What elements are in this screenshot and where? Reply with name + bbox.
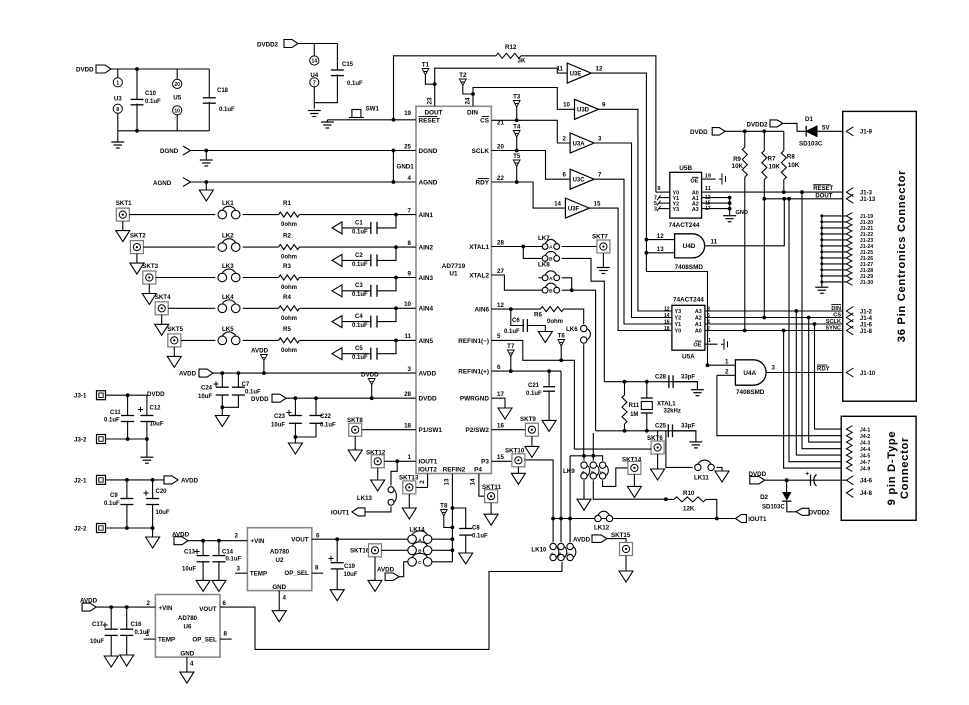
svg-text:2: 2 [147, 600, 151, 607]
svg-text:13: 13 [444, 478, 451, 485]
svg-text:AIN2: AIN2 [419, 245, 434, 252]
svg-text:U5A: U5A [682, 354, 695, 361]
svg-text:J4-7: J4-7 [860, 460, 870, 466]
svg-text:LK11: LK11 [694, 475, 709, 482]
svg-text:10uF: 10uF [90, 639, 104, 645]
svg-text:7408SMD: 7408SMD [736, 389, 765, 396]
svg-text:C2: C2 [355, 253, 363, 259]
svg-text:T6: T6 [558, 333, 566, 340]
svg-text:18: 18 [404, 423, 411, 430]
svg-text:U6: U6 [184, 624, 192, 631]
svg-text:A: A [580, 471, 585, 474]
svg-text:RDY: RDY [476, 179, 490, 186]
svg-text:0.1uF: 0.1uF [226, 556, 242, 562]
svg-text:16: 16 [664, 320, 670, 326]
svg-text:11: 11 [705, 186, 711, 192]
svg-text:0.1uF: 0.1uF [352, 292, 368, 298]
svg-text:DOUT: DOUT [815, 193, 832, 199]
svg-text:VOUT: VOUT [199, 606, 216, 613]
svg-text:6: 6 [223, 600, 227, 607]
svg-text:0ohm: 0ohm [281, 285, 297, 291]
svg-text:12: 12 [664, 307, 670, 313]
svg-text:10uF: 10uF [156, 510, 170, 516]
svg-text:AGND: AGND [153, 180, 172, 187]
svg-text:GND1: GND1 [397, 164, 415, 171]
svg-text:XTAL2: XTAL2 [469, 272, 489, 279]
svg-text:A: A [549, 552, 554, 555]
svg-text:SKT9: SKT9 [520, 416, 536, 423]
svg-text:R12: R12 [505, 44, 517, 51]
svg-text:C17: C17 [92, 622, 104, 628]
svg-text:VOUT: VOUT [291, 537, 308, 544]
svg-text:AD780: AD780 [270, 549, 290, 556]
svg-text:J4-6: J4-6 [860, 479, 873, 485]
svg-text:74ACT244: 74ACT244 [669, 222, 700, 229]
svg-text:U2: U2 [276, 557, 284, 564]
svg-text:23: 23 [427, 97, 434, 104]
svg-text:TEMP: TEMP [250, 571, 267, 578]
svg-text:DVDD2: DVDD2 [257, 42, 279, 49]
svg-text:AVDD: AVDD [179, 371, 197, 378]
svg-text:OP_SEL: OP_SEL [284, 570, 309, 577]
svg-text:0.1uF: 0.1uF [320, 423, 336, 429]
svg-text:A3: A3 [695, 309, 702, 315]
svg-text:Y2: Y2 [675, 316, 682, 322]
svg-text:10uF: 10uF [150, 422, 164, 428]
svg-text:10K: 10K [769, 164, 781, 171]
svg-text:AVDD: AVDD [419, 371, 437, 378]
svg-text:J3-2: J3-2 [74, 436, 87, 443]
svg-text:R5: R5 [283, 326, 291, 333]
svg-text:74ACT244: 74ACT244 [673, 297, 704, 304]
svg-text:J2-2: J2-2 [74, 525, 87, 532]
svg-text:2: 2 [725, 369, 729, 376]
svg-text:27: 27 [497, 268, 504, 275]
svg-text:LK1: LK1 [222, 200, 234, 207]
svg-text:20: 20 [497, 143, 504, 150]
svg-text:7408SMD: 7408SMD [675, 264, 704, 271]
svg-text:AIN3: AIN3 [419, 275, 434, 282]
svg-text:PWRGND: PWRGND [460, 396, 489, 403]
svg-text:J4-3: J4-3 [860, 440, 870, 446]
svg-text:0.1uF: 0.1uF [352, 262, 368, 268]
svg-text:J4-4: J4-4 [860, 447, 870, 453]
svg-text:0.1uF: 0.1uF [104, 501, 120, 507]
svg-text:R1: R1 [283, 200, 291, 207]
svg-text:8: 8 [408, 240, 412, 247]
svg-text:SKT5: SKT5 [167, 326, 183, 333]
svg-text:C10: C10 [145, 91, 157, 97]
svg-text:AGND: AGND [419, 179, 438, 186]
svg-text:J3-1: J3-1 [74, 393, 87, 400]
svg-text:28: 28 [497, 239, 504, 246]
svg-text:C: C [418, 560, 422, 566]
svg-text:T5: T5 [513, 153, 521, 160]
svg-text:0.1uF: 0.1uF [472, 534, 488, 540]
svg-text:D1: D1 [805, 116, 813, 123]
svg-text:DGND: DGND [160, 148, 179, 155]
svg-text:R9: R9 [733, 156, 741, 163]
svg-text:12: 12 [657, 233, 664, 240]
svg-text:DGND: DGND [419, 148, 438, 155]
svg-text:6: 6 [497, 364, 501, 371]
svg-text:IOUT1: IOUT1 [419, 459, 438, 466]
svg-text:LK13: LK13 [357, 495, 373, 502]
svg-text:12K: 12K [683, 506, 695, 513]
svg-text:SKT4: SKT4 [155, 294, 171, 301]
svg-text:XTAL1: XTAL1 [469, 244, 489, 251]
svg-text:U3: U3 [114, 95, 122, 102]
svg-text:19: 19 [705, 173, 711, 179]
svg-text:10uF: 10uF [198, 394, 212, 400]
svg-text:RESET: RESET [813, 186, 833, 192]
svg-text:J4-9: J4-9 [860, 466, 870, 472]
svg-text:C1: C1 [355, 220, 363, 226]
svg-text:C28: C28 [655, 374, 667, 380]
svg-text:13: 13 [657, 246, 664, 253]
svg-text:C13: C13 [184, 550, 196, 556]
svg-text:D2: D2 [760, 494, 768, 501]
svg-text:11: 11 [556, 66, 563, 73]
svg-text:C8: C8 [472, 526, 480, 532]
svg-text:7: 7 [313, 81, 316, 87]
svg-text:4: 4 [707, 320, 710, 326]
svg-text:6: 6 [707, 313, 710, 319]
svg-text:J4-5: J4-5 [860, 453, 870, 459]
svg-text:OP_SEL: OP_SEL [192, 637, 217, 644]
svg-text:J4-1: J4-1 [860, 427, 870, 433]
svg-text:SD103C: SD103C [799, 141, 823, 148]
svg-text:18: 18 [664, 326, 670, 332]
svg-text:U4A: U4A [743, 370, 756, 377]
svg-text:R11: R11 [629, 403, 640, 409]
svg-text:C4: C4 [355, 314, 363, 320]
svg-text:IOUT1: IOUT1 [331, 509, 350, 516]
svg-text:0.1uF: 0.1uF [504, 329, 520, 335]
svg-text:0.1uF: 0.1uF [347, 81, 363, 87]
svg-text:9: 9 [657, 186, 660, 192]
svg-text:8: 8 [315, 565, 319, 572]
svg-text:U3D: U3D [577, 108, 590, 114]
svg-text:REFIN1(−): REFIN1(−) [458, 338, 489, 345]
svg-text:C12: C12 [150, 406, 162, 412]
svg-text:C15: C15 [342, 62, 354, 68]
svg-text:DVDD: DVDD [147, 391, 165, 398]
svg-text:AD7719: AD7719 [442, 263, 466, 270]
svg-text:16: 16 [497, 423, 504, 430]
svg-text:6: 6 [563, 172, 567, 179]
svg-text:DVDD: DVDD [76, 67, 94, 74]
svg-text:1: 1 [116, 81, 119, 87]
svg-text:1: 1 [725, 359, 729, 366]
svg-text:10uF: 10uF [344, 572, 358, 578]
svg-text:6: 6 [316, 532, 320, 539]
svg-text:LK3: LK3 [222, 263, 234, 270]
svg-text:SKT3: SKT3 [142, 263, 158, 270]
svg-text:LK9: LK9 [563, 468, 575, 475]
svg-text:C20: C20 [156, 489, 168, 495]
svg-text:17: 17 [497, 391, 504, 398]
svg-text:C18: C18 [217, 88, 229, 94]
svg-text:8: 8 [224, 631, 228, 638]
svg-text:A2: A2 [695, 316, 702, 322]
svg-text:5: 5 [497, 333, 501, 340]
svg-text:J1-10: J1-10 [860, 371, 876, 377]
svg-text:LK12: LK12 [594, 525, 610, 532]
svg-text:15: 15 [497, 454, 504, 461]
svg-text:24: 24 [465, 97, 472, 104]
svg-text:U3F: U3F [568, 206, 580, 212]
svg-text:1: 1 [708, 338, 711, 344]
svg-text:28: 28 [404, 391, 411, 398]
svg-text:SYNC: SYNC [825, 325, 841, 331]
svg-text:AD780: AD780 [178, 615, 198, 622]
svg-text:R2: R2 [283, 233, 291, 240]
svg-text:LK10: LK10 [531, 547, 547, 554]
svg-text:J1-9: J1-9 [860, 130, 873, 136]
svg-text:J1-6: J1-6 [860, 322, 873, 328]
svg-text:+VIN: +VIN [159, 605, 173, 612]
svg-text:Y3: Y3 [673, 207, 680, 213]
svg-text:U1: U1 [449, 271, 458, 278]
svg-text:R8: R8 [787, 154, 795, 161]
svg-text:T1: T1 [422, 62, 430, 69]
svg-text:OE: OE [693, 342, 701, 348]
svg-text:3: 3 [598, 135, 602, 142]
svg-text:C: C [599, 471, 604, 474]
svg-text:OE: OE [690, 179, 698, 185]
svg-text:J1-30: J1-30 [860, 280, 873, 286]
svg-text:C25: C25 [655, 423, 667, 429]
svg-text:C23: C23 [274, 414, 286, 420]
svg-text:SKT16: SKT16 [350, 548, 370, 555]
svg-text:P2/SW2: P2/SW2 [466, 427, 490, 434]
svg-text:0.1uF: 0.1uF [352, 355, 368, 361]
svg-text:C14: C14 [222, 550, 234, 556]
svg-text:RDY: RDY [817, 367, 830, 373]
svg-text:4: 4 [408, 175, 412, 182]
svg-text:J4-2: J4-2 [860, 434, 870, 440]
svg-text:1M: 1M [630, 412, 638, 418]
svg-text:A: A [549, 245, 553, 251]
svg-text:DVDD: DVDD [419, 396, 437, 403]
svg-text:U3A: U3A [573, 141, 586, 147]
svg-text:J2-1: J2-1 [74, 477, 87, 484]
svg-text:A: A [549, 276, 553, 282]
svg-text:LK4: LK4 [222, 294, 234, 301]
svg-text:5V: 5V [822, 125, 830, 132]
svg-text:AVDD: AVDD [573, 537, 591, 544]
svg-text:T4: T4 [513, 124, 521, 131]
svg-text:TEMP: TEMP [158, 637, 175, 644]
svg-text:A1: A1 [695, 322, 702, 328]
svg-text:AIN4: AIN4 [419, 306, 434, 313]
svg-text:9 pin D-Type: 9 pin D-Type [886, 431, 898, 506]
svg-text:R4: R4 [283, 294, 291, 301]
svg-text:GND: GND [180, 651, 194, 658]
svg-text:10: 10 [174, 109, 180, 115]
svg-text:Y0: Y0 [675, 329, 682, 335]
svg-text:SKT2: SKT2 [130, 233, 146, 240]
svg-text:DVDD: DVDD [690, 129, 708, 136]
svg-text:LK7: LK7 [538, 235, 550, 242]
svg-text:14: 14 [312, 59, 318, 65]
svg-text:R3: R3 [283, 263, 291, 270]
svg-text:DIN: DIN [467, 110, 478, 117]
svg-text:R6: R6 [534, 312, 542, 319]
svg-text:XTAL1: XTAL1 [657, 402, 676, 408]
svg-text:7: 7 [598, 172, 602, 179]
svg-text:B: B [549, 257, 553, 263]
svg-text:SKT1: SKT1 [116, 200, 132, 207]
svg-text:T2: T2 [459, 72, 467, 79]
svg-text:10K: 10K [732, 163, 744, 170]
svg-text:33pF: 33pF [681, 423, 695, 429]
svg-text:B: B [589, 471, 594, 474]
svg-text:0.1uF: 0.1uF [352, 229, 368, 235]
svg-text:11: 11 [711, 239, 718, 246]
svg-text:3: 3 [237, 566, 241, 573]
svg-text:AVDD: AVDD [251, 348, 269, 355]
svg-text:C: C [566, 552, 571, 555]
svg-text:0ohm: 0ohm [281, 348, 297, 354]
svg-text:J1-13: J1-13 [860, 197, 876, 203]
svg-text:4: 4 [283, 595, 287, 602]
svg-text:Y1: Y1 [675, 322, 682, 328]
svg-text:P4: P4 [474, 466, 482, 473]
svg-text:12: 12 [596, 66, 603, 73]
svg-text:3: 3 [772, 365, 776, 372]
svg-text:U3E: U3E [570, 71, 582, 77]
svg-text:36 Pin Centronics Connector: 36 Pin Centronics Connector [896, 170, 908, 342]
svg-text:LK5: LK5 [222, 326, 234, 333]
svg-text:9: 9 [602, 102, 606, 109]
svg-text:2: 2 [235, 532, 239, 539]
svg-text:33pF: 33pF [681, 374, 695, 380]
svg-text:C22: C22 [320, 414, 332, 420]
svg-text:0ohm: 0ohm [281, 316, 297, 322]
svg-text:22: 22 [497, 175, 504, 182]
svg-text:DVDD2: DVDD2 [747, 122, 769, 129]
svg-text:0ohm: 0ohm [281, 255, 297, 261]
svg-text:2: 2 [563, 135, 567, 142]
svg-text:RESET: RESET [419, 117, 440, 124]
svg-text:C24: C24 [201, 386, 213, 392]
svg-text:19: 19 [404, 110, 411, 117]
svg-text:AVDD: AVDD [377, 566, 395, 573]
svg-text:3: 3 [408, 366, 412, 373]
svg-text:11: 11 [404, 333, 411, 340]
svg-text:C5: C5 [355, 346, 363, 352]
svg-text:U5B: U5B [679, 165, 692, 172]
svg-text:IOUT1: IOUT1 [748, 516, 767, 523]
svg-text:J1-2: J1-2 [860, 309, 873, 315]
svg-text:B: B [557, 552, 562, 555]
svg-text:T3: T3 [513, 94, 521, 101]
svg-text:AIN6: AIN6 [474, 307, 489, 314]
svg-text:8: 8 [707, 307, 710, 313]
svg-text:AIN5: AIN5 [419, 338, 434, 345]
svg-text:1: 1 [408, 454, 412, 461]
svg-text:Y3: Y3 [675, 309, 682, 315]
svg-text:10: 10 [563, 102, 570, 109]
svg-text:12: 12 [497, 302, 504, 309]
svg-text:17: 17 [705, 206, 711, 212]
svg-text:14: 14 [554, 201, 561, 208]
svg-text:25: 25 [404, 143, 411, 150]
svg-text:0.1uF: 0.1uF [145, 99, 161, 105]
svg-text:10uF: 10uF [182, 567, 196, 573]
svg-text:LK6: LK6 [566, 326, 578, 333]
svg-text:DOUT: DOUT [424, 110, 442, 117]
svg-text:C11: C11 [110, 410, 121, 416]
svg-text:C19: C19 [344, 564, 356, 570]
svg-text:U4D: U4D [683, 243, 696, 250]
svg-text:32kHz: 32kHz [664, 409, 681, 415]
svg-text:J4-8: J4-8 [860, 491, 873, 497]
svg-text:U5: U5 [173, 95, 181, 102]
svg-text:20: 20 [174, 82, 180, 88]
svg-text:R10: R10 [683, 490, 695, 497]
svg-text:J1-4: J1-4 [860, 316, 873, 322]
svg-text:C21: C21 [528, 383, 540, 389]
svg-text:CS: CS [480, 117, 490, 124]
svg-text:DVDD2: DVDD2 [809, 510, 831, 517]
svg-text:J1-3: J1-3 [860, 190, 873, 196]
svg-text:Connector: Connector [899, 437, 911, 499]
svg-text:DVDD: DVDD [361, 372, 379, 379]
svg-text:0.1uF: 0.1uF [245, 390, 261, 396]
svg-text:SCLK: SCLK [472, 148, 490, 155]
svg-text:0.1uF: 0.1uF [526, 391, 542, 397]
svg-text:0ohm: 0ohm [281, 222, 297, 228]
svg-text:3: 3 [146, 631, 150, 638]
svg-text:15: 15 [594, 201, 601, 208]
svg-text:U3C: U3C [573, 178, 586, 184]
svg-text:REFIN2: REFIN2 [443, 466, 466, 473]
svg-text:GND: GND [272, 584, 286, 591]
svg-text:0.1uF: 0.1uF [352, 323, 368, 329]
svg-text:LK2: LK2 [222, 233, 234, 240]
svg-text:7: 7 [408, 207, 412, 214]
svg-text:SD103C: SD103C [762, 505, 785, 511]
svg-text:J1-8: J1-8 [860, 329, 873, 335]
svg-text:3: 3 [654, 207, 657, 213]
svg-text:2: 2 [707, 326, 710, 332]
svg-text:T8: T8 [440, 503, 448, 510]
svg-text:C7: C7 [242, 382, 250, 388]
svg-text:A0: A0 [695, 329, 702, 335]
svg-text:2: 2 [419, 480, 426, 484]
svg-text:A3: A3 [692, 207, 699, 213]
svg-text:GND: GND [736, 210, 748, 216]
svg-text:T7: T7 [507, 343, 515, 350]
svg-text:SW1: SW1 [366, 106, 380, 113]
svg-text:LK8: LK8 [538, 262, 550, 269]
svg-text:14: 14 [470, 478, 477, 485]
svg-text:0.1uF: 0.1uF [219, 107, 235, 113]
svg-text:P3: P3 [481, 459, 489, 466]
svg-text:3K: 3K [518, 58, 526, 65]
svg-text:C3: C3 [355, 283, 363, 289]
svg-text:R7: R7 [768, 156, 776, 163]
svg-text:10uF: 10uF [271, 423, 285, 429]
svg-text:+VIN: +VIN [251, 538, 265, 545]
svg-text:10K: 10K [788, 162, 800, 169]
svg-text:SKT15: SKT15 [611, 532, 631, 539]
svg-text:C6: C6 [512, 318, 520, 324]
svg-text:0.1uF: 0.1uF [104, 418, 120, 424]
